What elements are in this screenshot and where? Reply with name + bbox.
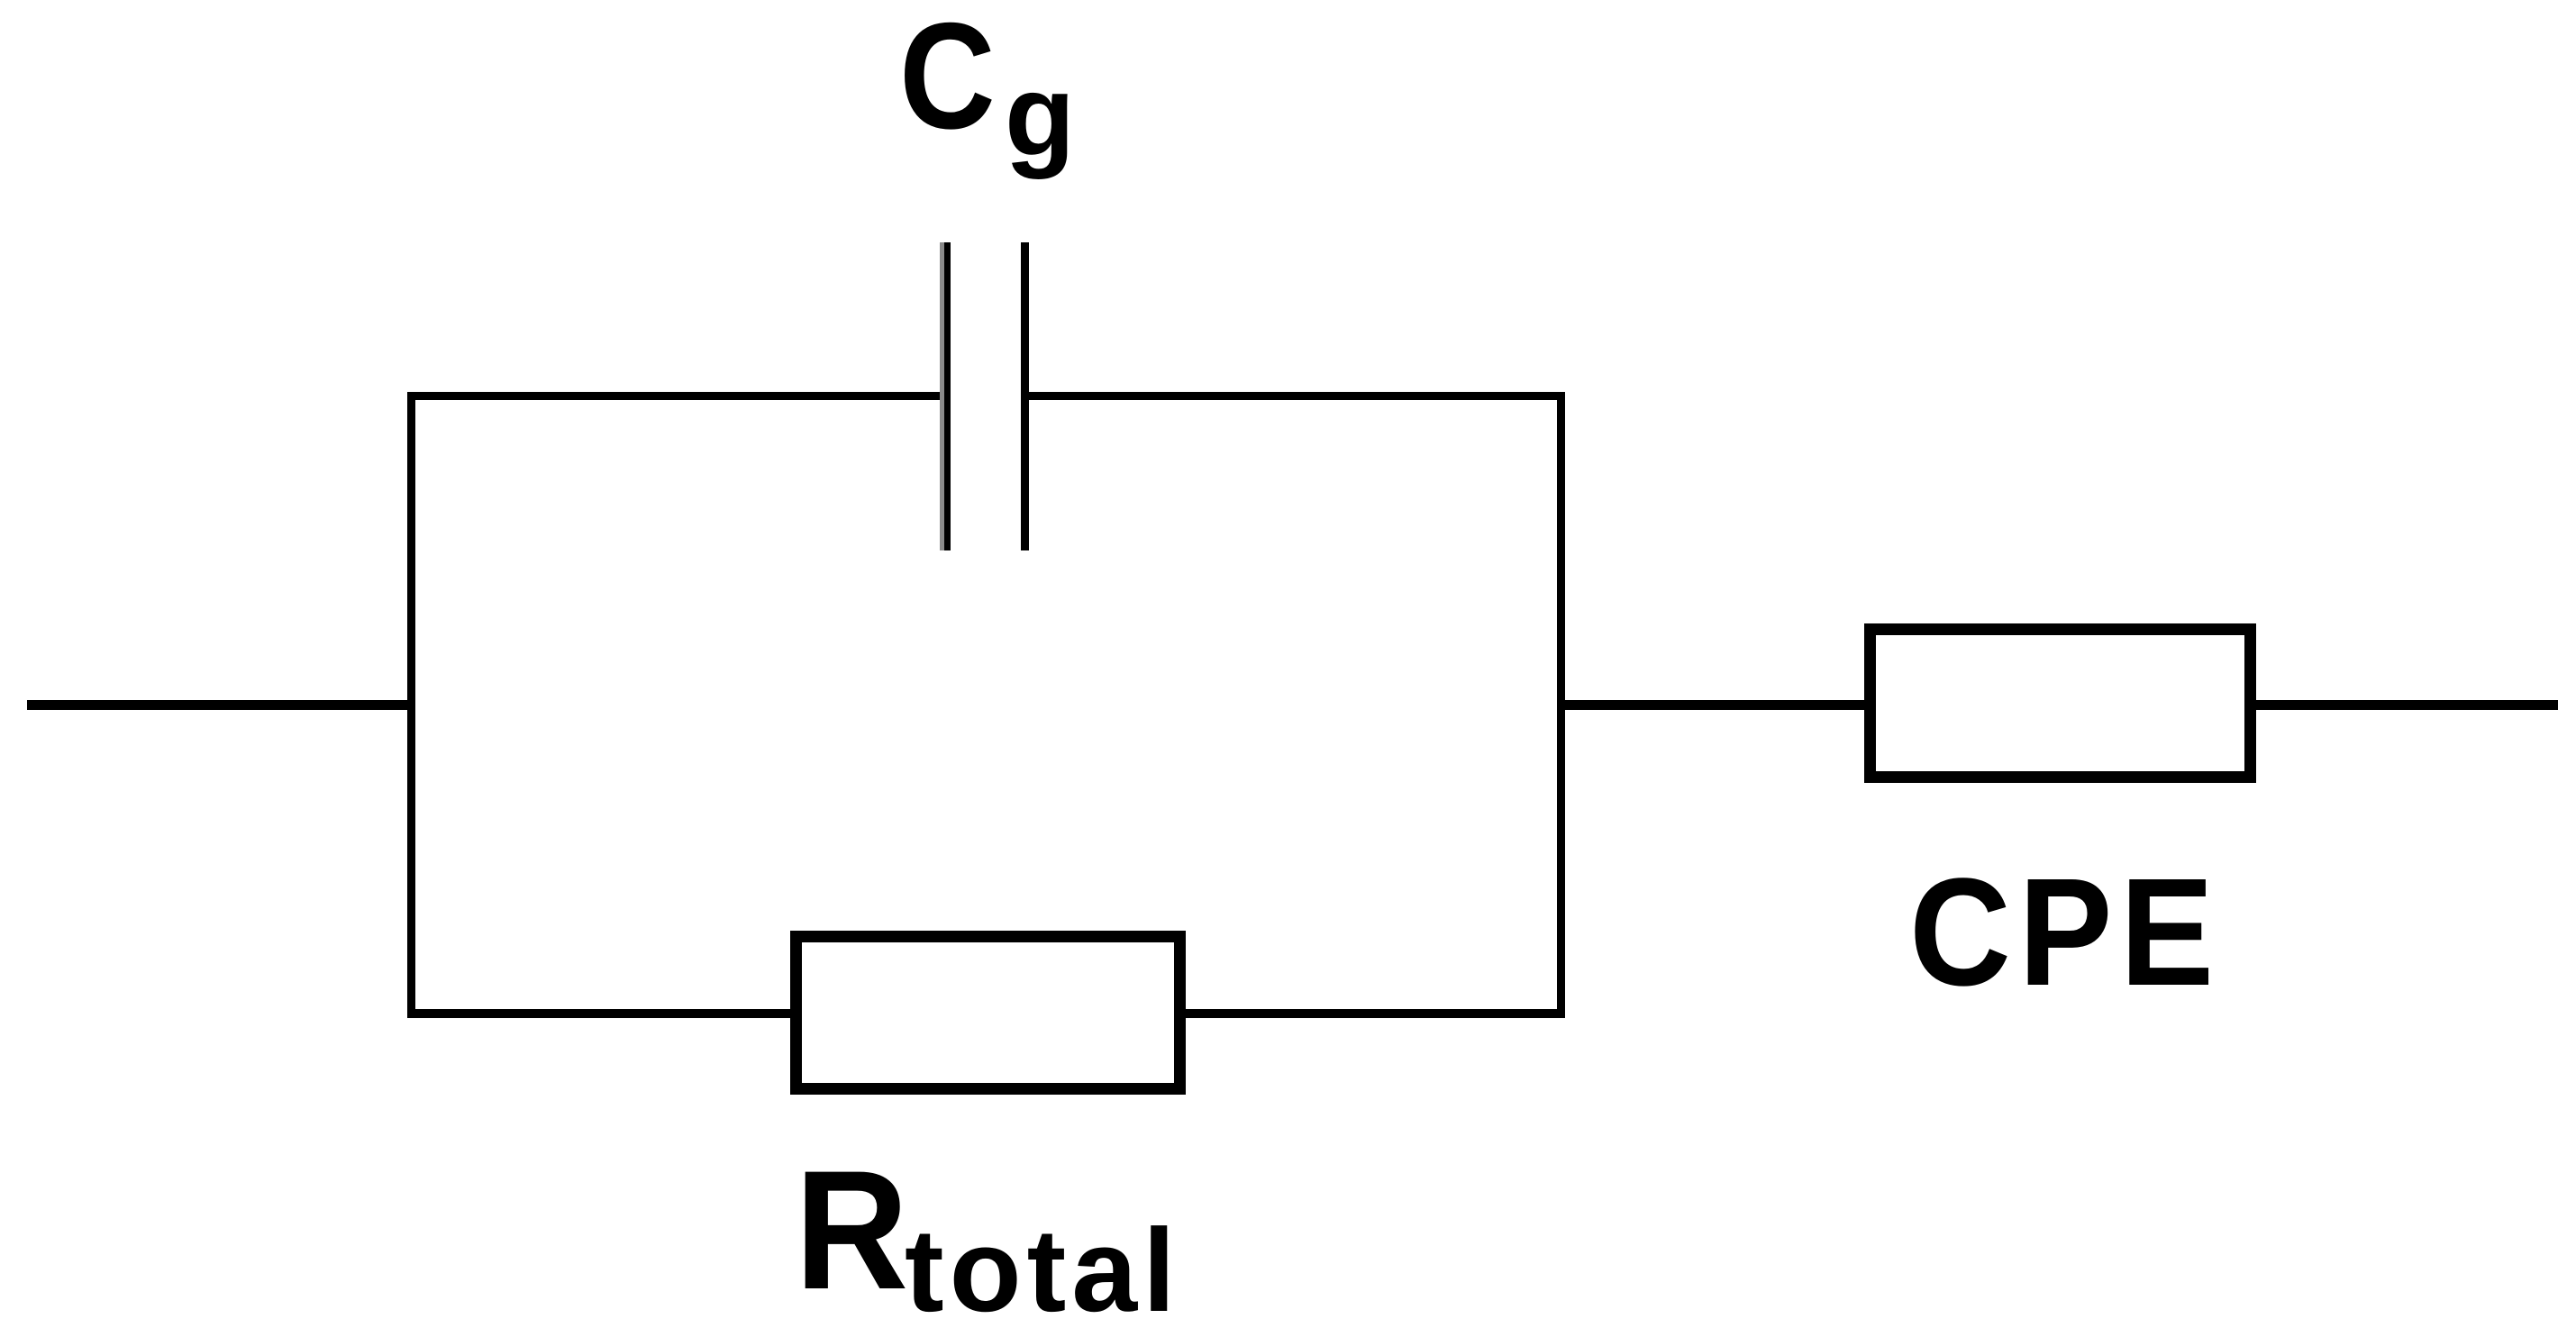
svg-text:total: total xyxy=(905,1204,1181,1336)
svg-text:CPE: CPE xyxy=(1909,846,2221,1017)
CPE element U1 xyxy=(1871,630,2251,778)
wire right lead xyxy=(2256,700,2558,710)
wire middle lead xyxy=(1565,700,1864,710)
resistor Rtotal xyxy=(796,937,1180,1089)
wire loop top, left segment to capacitor xyxy=(407,392,941,400)
wire parallel-loop left side xyxy=(407,392,415,1018)
wire loop bottom, left segment to resistor xyxy=(407,1009,796,1018)
wire loop top, right segment from capacitor xyxy=(1029,392,1565,400)
wire parallel-loop right side xyxy=(1557,392,1565,1018)
wire loop bottom, right segment from resistor xyxy=(1179,1009,1565,1018)
svg-text:g: g xyxy=(1005,51,1075,180)
svg-text:R: R xyxy=(795,1136,908,1324)
capacitor Cg xyxy=(940,242,1029,550)
svg-text:C: C xyxy=(899,0,996,160)
wire left lead xyxy=(27,700,414,710)
label Cg xyxy=(899,0,1075,180)
label Rtotal xyxy=(795,1136,1181,1336)
